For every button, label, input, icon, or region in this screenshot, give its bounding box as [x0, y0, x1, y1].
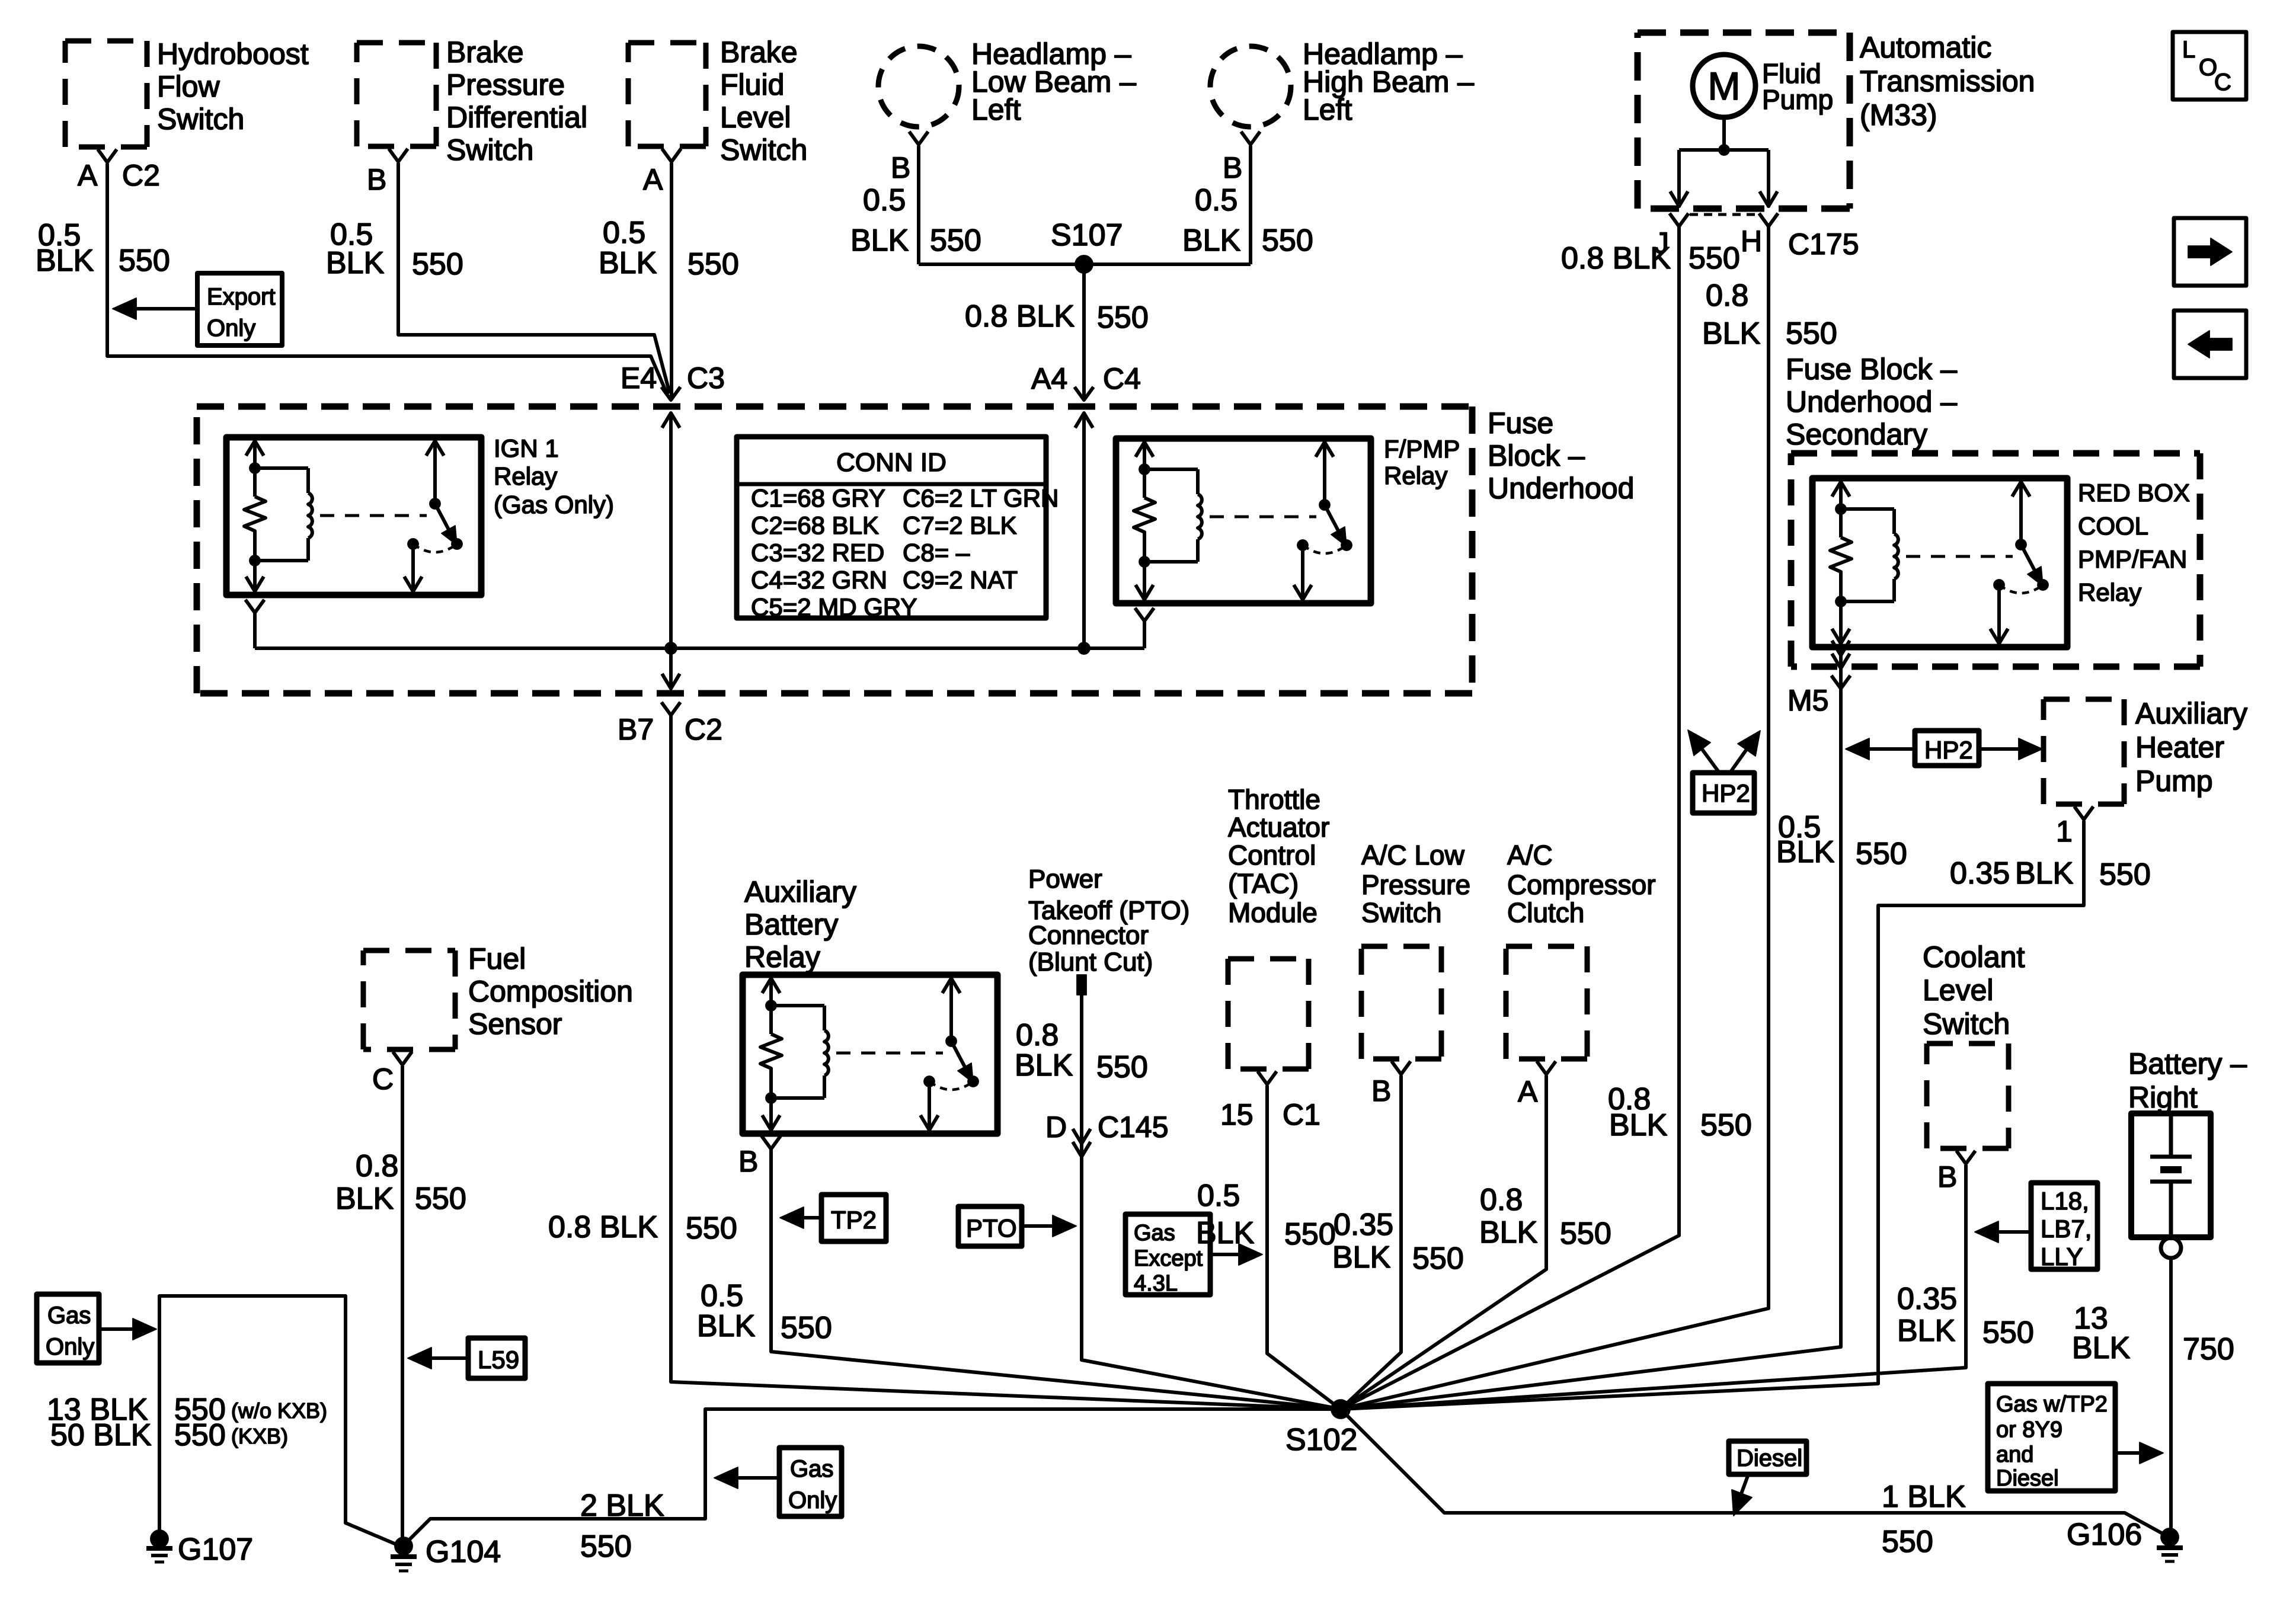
svg-text:IGN 1: IGN 1 [494, 434, 559, 462]
svg-text:Switch: Switch [157, 103, 244, 136]
svg-text:(KXB): (KXB) [231, 1424, 288, 1448]
svg-text:BLK: BLK [1702, 316, 1761, 351]
svg-text:BLK: BLK [1479, 1215, 1538, 1250]
svg-text:BLK: BLK [1196, 1216, 1255, 1250]
svg-text:Fuel: Fuel [468, 942, 526, 975]
svg-text:Actuator: Actuator [1228, 812, 1329, 843]
connector M5 [1831, 676, 1850, 689]
svg-text:Heater: Heater [2135, 731, 2224, 764]
svg-text:BLK: BLK [1609, 1108, 1668, 1142]
export only arrow [135, 307, 197, 311]
wire aux heater pump 0.35 BLK 550 to S102 [1341, 821, 2084, 1409]
svg-text:Relay: Relay [2078, 578, 2141, 606]
svg-text:M: M [1708, 64, 1741, 108]
svg-text:C: C [2214, 69, 2231, 95]
svg-text:G107: G107 [178, 1532, 253, 1567]
svg-text:550: 550 [415, 1182, 466, 1216]
svg-text:Gas w/TP2: Gas w/TP2 [1996, 1392, 2108, 1417]
svg-text:C6=2 LT GRN: C6=2 LT GRN [903, 484, 1059, 512]
svg-text:0.5: 0.5 [1197, 1179, 1240, 1213]
svg-text:550: 550 [1689, 241, 1740, 276]
svg-text:C9=2 NAT: C9=2 NAT [903, 566, 1018, 594]
junction node [1078, 642, 1090, 654]
svg-text:C175: C175 [1788, 228, 1859, 261]
svg-text:Pump: Pump [1762, 84, 1833, 115]
L18 LB7 LLY box [2031, 1183, 2097, 1269]
svg-text:Switch: Switch [1923, 1007, 2010, 1041]
svg-text:A: A [1518, 1075, 1538, 1108]
svg-text:Transmission: Transmission [1860, 65, 2035, 98]
svg-text:TP2: TP2 [831, 1206, 877, 1234]
PTO box [958, 1206, 1022, 1246]
svg-text:and: and [1996, 1442, 2033, 1467]
svg-text:C8= –: C8= – [903, 539, 970, 566]
wire PTO 0.8 BLK 550 to S102 [1082, 995, 1341, 1409]
svg-text:A: A [78, 159, 98, 192]
svg-text:C4=32 GRN: C4=32 GRN [751, 566, 887, 594]
wire S107 to A4/C4 [1082, 264, 1086, 400]
svg-text:C: C [372, 1062, 394, 1096]
svg-text:BLK: BLK [850, 223, 909, 258]
wire from E4/C3 down through fuse block [669, 413, 673, 687]
svg-text:0.35: 0.35 [1334, 1208, 1393, 1242]
wire aux battery relay 0.5 BLK 550 to S102 [771, 1149, 1341, 1409]
svg-text:C5=2 MD GRY: C5=2 MD GRY [751, 593, 917, 621]
connector A4/C4 [1075, 387, 1093, 400]
svg-text:PMP/FAN: PMP/FAN [2078, 545, 2187, 573]
wire from A4/C4 down to bus [1082, 413, 1086, 648]
svg-text:550: 550 [930, 223, 981, 258]
TP2 box [821, 1195, 886, 1241]
svg-text:BLK: BLK [2015, 856, 2074, 891]
svg-text:D: D [1045, 1110, 1067, 1144]
wire B7/C2 0.8 BLK 550 to S102 [671, 715, 1341, 1409]
wire headlamp high to S107 [1249, 146, 1252, 264]
svg-text:Connector: Connector [1028, 921, 1149, 950]
svg-text:G106: G106 [2067, 1518, 2142, 1552]
svg-text:Switch: Switch [1361, 897, 1441, 928]
svg-text:Relay: Relay [1384, 462, 1447, 489]
export only box [197, 273, 282, 345]
svg-text:C3=32 RED: C3=32 RED [751, 539, 884, 566]
svg-text:Throttle: Throttle [1228, 784, 1320, 815]
svg-text:0.8: 0.8 [1706, 279, 1748, 313]
svg-text:Block –: Block – [1488, 439, 1585, 472]
svg-text:Secondary: Secondary [1786, 418, 1927, 451]
svg-text:Level: Level [720, 101, 791, 134]
gas w/TP2 or 8Y9 and diesel box [1988, 1384, 2115, 1491]
svg-text:550: 550 [174, 1418, 226, 1452]
svg-text:Automatic: Automatic [1860, 31, 1991, 64]
svg-text:Compressor: Compressor [1507, 869, 1656, 900]
svg-text:A/C Low: A/C Low [1361, 840, 1465, 870]
svg-text:Left: Left [1303, 93, 1352, 126]
ground G107 [151, 1530, 168, 1548]
svg-text:550: 550 [1262, 223, 1313, 258]
svg-text:Fluid: Fluid [720, 68, 784, 101]
svg-text:Gas: Gas [1134, 1221, 1175, 1246]
svg-text:1 BLK: 1 BLK [1882, 1480, 1966, 1514]
RED BOX COOL PMP/FAN relay [1812, 478, 2067, 647]
svg-text:Right: Right [2128, 1081, 2198, 1114]
svg-text:Control: Control [1228, 840, 1316, 870]
svg-text:C3: C3 [687, 361, 725, 395]
svg-text:550: 550 [119, 244, 170, 278]
svg-text:E4: E4 [621, 361, 657, 395]
svg-text:CONN ID: CONN ID [836, 448, 946, 477]
svg-text:(M33): (M33) [1860, 98, 1937, 132]
svg-text:C145: C145 [1098, 1110, 1169, 1144]
ground G106 [2161, 1528, 2179, 1546]
svg-text:Pressure: Pressure [446, 68, 565, 101]
connector E4/C3 [661, 387, 680, 400]
svg-text:BLK: BLK [1182, 223, 1241, 258]
wire fluid pump to pins J and H [1722, 117, 1726, 150]
internal ground bus in fuse block [255, 646, 1144, 650]
svg-text:F/PMP: F/PMP [1384, 435, 1460, 463]
svg-text:BLK: BLK [335, 1182, 394, 1216]
wire TAC 0.5 BLK 550 to S102 [1267, 1086, 1341, 1409]
right arrow legend box [2174, 218, 2246, 286]
svg-text:or 8Y9: or 8Y9 [1996, 1417, 2062, 1442]
headlamp high beam left [1210, 46, 1291, 127]
auxiliary heater pump [2044, 699, 2124, 804]
svg-text:0.8: 0.8 [356, 1149, 398, 1183]
svg-text:Brake: Brake [446, 36, 524, 69]
relay pin exit double chevron [1839, 647, 1843, 687]
svg-text:B: B [891, 151, 910, 184]
wire fuel composition 0.8 BLK 550 to G104 [401, 1066, 404, 1541]
svg-text:L: L [2182, 37, 2195, 63]
wire A/C compressor clutch 0.8 BLK 550 to S102 [1341, 1076, 1546, 1409]
gas only box right [779, 1448, 842, 1516]
wire brake fluid to E4 [670, 163, 673, 399]
wire S102 to G104 2 BLK 550 [406, 1409, 1341, 1543]
wire brake pressure to E4 [398, 163, 670, 393]
svg-text:1: 1 [2056, 815, 2073, 848]
svg-text:C2: C2 [685, 713, 722, 746]
svg-text:C1=68 GRY: C1=68 GRY [751, 484, 885, 512]
svg-text:B: B [1937, 1160, 1957, 1193]
svg-text:15: 15 [1220, 1098, 1253, 1131]
svg-text:C7=2 BLK: C7=2 BLK [903, 511, 1017, 539]
wire M5 0.5 BLK 550 to S102 [1341, 689, 1841, 1409]
svg-text:2 BLK: 2 BLK [580, 1489, 664, 1523]
svg-text:L59: L59 [478, 1346, 519, 1374]
svg-text:550: 550 [1882, 1525, 1933, 1559]
svg-text:Gas: Gas [790, 1456, 833, 1482]
svg-text:Flow: Flow [157, 70, 220, 103]
svg-text:Pump: Pump [2135, 764, 2213, 798]
svg-text:550: 550 [1412, 1241, 1464, 1276]
LOC legend box [2173, 32, 2246, 100]
svg-text:LB7,: LB7, [2041, 1215, 2092, 1243]
svg-text:550: 550 [1700, 1108, 1752, 1142]
wire H 0.8 BLK 550 to S102 [1341, 226, 1769, 1409]
IGN1 relay pin wire to bus [245, 600, 264, 613]
svg-text:Relay: Relay [744, 940, 820, 974]
fuse block underhood dashed border [197, 406, 1472, 693]
svg-text:BLK: BLK [2072, 1331, 2131, 1365]
svg-text:50 BLK: 50 BLK [50, 1418, 152, 1452]
svg-text:550: 550 [1097, 300, 1149, 335]
svg-text:Left: Left [971, 93, 1021, 126]
wire headlamp low to S107 [917, 146, 920, 264]
left arrow legend box [2174, 311, 2246, 378]
svg-text:Battery: Battery [744, 908, 838, 941]
L59 box [468, 1338, 525, 1378]
svg-text:C4: C4 [1103, 362, 1141, 395]
svg-text:S102: S102 [1285, 1423, 1357, 1457]
svg-text:Gas: Gas [47, 1302, 91, 1329]
fuse block underhood secondary dashed border [1791, 453, 2200, 667]
F/PMP relay [1116, 438, 1371, 603]
svg-text:C2=68 BLK: C2=68 BLK [751, 511, 879, 539]
fuel composition sensor [363, 950, 455, 1049]
splice S102 [1331, 1400, 1350, 1419]
svg-text:Hydroboost: Hydroboost [157, 37, 309, 71]
svg-text:HP2: HP2 [1702, 779, 1750, 807]
splice S107 [919, 263, 1251, 266]
svg-text:Auxiliary: Auxiliary [2135, 697, 2247, 730]
svg-text:550: 550 [1096, 1050, 1148, 1084]
svg-text:550: 550 [1982, 1315, 2034, 1350]
svg-text:BLK: BLK [599, 246, 657, 280]
svg-text:Only: Only [788, 1487, 837, 1513]
svg-text:0.8: 0.8 [1016, 1018, 1059, 1052]
svg-text:(TAC): (TAC) [1228, 868, 1299, 899]
svg-text:PTO: PTO [966, 1214, 1017, 1242]
svg-text:BLK: BLK [1776, 835, 1835, 869]
connector C175 pins J H [1670, 213, 1689, 226]
automatic transmission (M33) box [1638, 33, 1850, 209]
diesel box [1729, 1441, 1806, 1474]
wire S102 to G106 1 BLK 550 [1341, 1409, 2168, 1537]
svg-text:A4: A4 [1031, 362, 1067, 395]
svg-text:Differential: Differential [446, 101, 587, 134]
svg-text:750: 750 [2183, 1332, 2234, 1366]
svg-text:Underhood: Underhood [1488, 472, 1634, 505]
svg-text:550: 550 [1786, 316, 1837, 351]
svg-text:Only: Only [46, 1334, 94, 1360]
wire battery 13 BLK 750 to G106 [2169, 1258, 2173, 1535]
svg-text:Coolant: Coolant [1923, 940, 2025, 974]
svg-text:BLK: BLK [326, 246, 385, 280]
svg-text:B7: B7 [618, 713, 654, 746]
svg-text:LLY: LLY [2041, 1243, 2083, 1270]
wire hydroboost to E4 [107, 164, 667, 395]
svg-text:Relay: Relay [494, 462, 557, 490]
wire J 0.8 BLK 550 to S102 [1341, 226, 1679, 1409]
svg-text:Except: Except [1134, 1246, 1203, 1271]
hydroboost flow switch [65, 41, 147, 147]
wire A/C low pressure 0.35 BLK 550 to S102 [1341, 1076, 1401, 1409]
wire coolant level switch 0.35 BLK 550 to S102 [1341, 1165, 1966, 1409]
svg-text:(w/o KXB): (w/o KXB) [231, 1398, 327, 1423]
svg-text:(Gas Only): (Gas Only) [494, 491, 614, 518]
svg-text:Auxiliary: Auxiliary [744, 875, 856, 908]
svg-text:Pressure: Pressure [1361, 869, 1470, 900]
svg-text:S107: S107 [1051, 218, 1123, 252]
svg-text:Diesel: Diesel [1996, 1466, 2059, 1491]
svg-text:BLK: BLK [1332, 1240, 1391, 1275]
svg-text:Diesel: Diesel [1737, 1445, 1802, 1471]
svg-text:B: B [1223, 151, 1242, 184]
svg-text:RED BOX: RED BOX [2078, 479, 2190, 507]
svg-text:550: 550 [1560, 1217, 1611, 1251]
headlamp low beam left [878, 46, 959, 127]
svg-text:BLK: BLK [1015, 1048, 1073, 1083]
svg-text:L18,: L18, [2041, 1187, 2089, 1215]
svg-text:Brake: Brake [720, 36, 798, 69]
junction node [665, 642, 677, 654]
svg-text:Battery –: Battery – [2128, 1047, 2247, 1080]
fluid pump motor M [1693, 55, 1755, 117]
svg-text:BLK: BLK [697, 1309, 756, 1343]
IGN 1 relay [226, 437, 481, 595]
svg-text:0.8: 0.8 [1480, 1183, 1523, 1217]
svg-text:(Blunt Cut): (Blunt Cut) [1028, 948, 1153, 977]
svg-text:Sensor: Sensor [468, 1007, 562, 1041]
wire G107-G104 loop [159, 1296, 396, 1544]
svg-text:H: H [1741, 225, 1762, 258]
svg-text:COOL: COOL [2078, 512, 2148, 540]
svg-text:0.35: 0.35 [1950, 856, 2010, 891]
svg-text:4.3L: 4.3L [1134, 1271, 1178, 1296]
svg-text:0.5: 0.5 [603, 216, 645, 250]
svg-text:550: 550 [2099, 857, 2151, 892]
svg-text:0.5: 0.5 [1195, 183, 1237, 217]
svg-text:Underhood –: Underhood – [1786, 385, 1957, 418]
svg-text:B: B [738, 1145, 758, 1178]
CONN ID table [737, 437, 1046, 618]
svg-text:550: 550 [580, 1529, 632, 1564]
svg-text:550: 550 [412, 247, 463, 281]
svg-text:A/C: A/C [1507, 840, 1553, 870]
svg-text:550: 550 [687, 247, 739, 281]
F/PMP relay pin wire to bus [1135, 608, 1154, 621]
brake fluid level switch [628, 43, 706, 146]
svg-text:550: 550 [1856, 837, 1907, 871]
svg-text:Power: Power [1028, 865, 1102, 894]
svg-text:Module: Module [1228, 897, 1318, 928]
svg-text:G104: G104 [426, 1535, 501, 1569]
gas except 4.3L box [1125, 1214, 1210, 1295]
connector B7/C2 [662, 674, 680, 689]
svg-text:HP2: HP2 [1924, 736, 1973, 764]
svg-text:Export: Export [207, 284, 276, 310]
svg-text:Fuse Block –: Fuse Block – [1786, 353, 1957, 386]
svg-text:Level: Level [1923, 974, 1994, 1007]
svg-text:Composition: Composition [468, 975, 633, 1008]
svg-text:BLK: BLK [36, 244, 94, 278]
svg-text:0.5: 0.5 [701, 1279, 743, 1313]
svg-text:0.8 BLK: 0.8 BLK [1561, 241, 1671, 276]
svg-text:Switch: Switch [446, 133, 533, 167]
svg-text:C1: C1 [1283, 1098, 1320, 1131]
gas only box left [37, 1294, 99, 1363]
svg-text:M5: M5 [1787, 684, 1828, 717]
svg-text:A: A [643, 163, 663, 196]
svg-text:0.8 BLK: 0.8 BLK [965, 299, 1075, 334]
svg-text:Switch: Switch [720, 133, 807, 167]
svg-text:B: B [367, 163, 386, 196]
svg-text:Fuse: Fuse [1488, 406, 1553, 440]
svg-text:550: 550 [781, 1311, 832, 1345]
connector D/C145 [1073, 1129, 1091, 1144]
svg-text:0.5: 0.5 [863, 183, 906, 217]
HP2 box with horizontal arrows [1915, 731, 1979, 766]
svg-text:0.35: 0.35 [1897, 1282, 1957, 1316]
ground G104 [395, 1537, 412, 1555]
svg-text:Clutch: Clutch [1507, 897, 1584, 928]
svg-text:0.8 BLK: 0.8 BLK [548, 1210, 658, 1244]
svg-text:Only: Only [207, 315, 255, 341]
svg-text:C2: C2 [122, 159, 160, 192]
HP2 reference box with diagonal arrows [1693, 773, 1754, 813]
svg-text:B: B [1371, 1074, 1391, 1108]
brake pressure differential switch [357, 43, 436, 146]
svg-text:BLK: BLK [1897, 1314, 1956, 1348]
svg-text:550: 550 [1284, 1217, 1336, 1251]
svg-text:550: 550 [686, 1211, 737, 1246]
